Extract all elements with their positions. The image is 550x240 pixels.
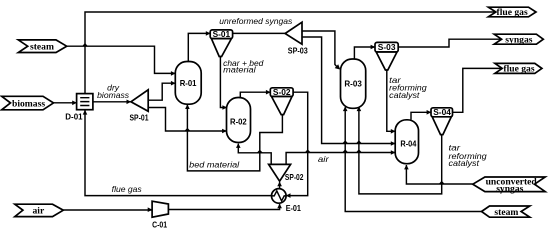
wire R-02 top to S-02 inlet — [240, 92, 270, 97]
wire flue gas from E-01 west and up through D-01 — [85, 110, 272, 195]
wire R-04 top to S-04 inlet — [411, 112, 431, 120]
arrowhead steam into R-03 bottom — [343, 106, 348, 111]
stream banner unconverted syngas (right, points left) — [473, 177, 545, 195]
wire SP-01 lower output to R-02 lower inlet — [148, 108, 226, 132]
splitter SP-03 — [285, 22, 308, 55]
svg-text:D-01: D-01 — [65, 112, 83, 122]
svg-text:catalyst: catalyst — [389, 90, 420, 100]
cyclone S-01 — [210, 29, 232, 56]
wire E-01 top to SP-02 apex — [279, 182, 281, 188]
wire steam banner to R-01 upper inlet — [67, 46, 176, 73]
stream banner steam (bottom right input, points left) — [482, 206, 530, 218]
arrowhead SP-03 upper into R-03 top — [335, 64, 341, 69]
arrowhead syngas into R-04 middle — [391, 141, 396, 146]
crossing hop on air header over recycle riser — [356, 149, 362, 152]
arrowhead into S-04 — [427, 110, 432, 115]
junction J1 (dry biomass / bed material / R-01 feed) — [184, 128, 190, 131]
arrowhead air into C-01 — [148, 207, 153, 212]
arrowhead into E-01 bottom — [277, 204, 282, 209]
svg-text:syngas: syngas — [505, 34, 532, 45]
arrowhead SP-01 upper into R-01 — [171, 81, 176, 86]
compressor C-01 — [152, 201, 168, 229]
arrowhead SP-01 lower into R-02 — [222, 129, 227, 134]
arrowhead recycle into R-03 bottom — [357, 106, 362, 111]
svg-text:S-04: S-04 — [433, 107, 451, 117]
arrowhead dry biomass into SP-01 apex — [127, 100, 132, 105]
svg-text:R-03: R-03 — [344, 79, 362, 89]
svg-text:flue gas: flue gas — [503, 64, 534, 75]
svg-text:air: air — [33, 206, 45, 217]
svg-text:C-01: C-01 — [152, 219, 167, 229]
wire node J4 recycle down west and up into R-03 bottom — [359, 107, 442, 194]
arrowhead catalyst into R-04 upper-left — [391, 129, 396, 134]
svg-text:bed material: bed material — [189, 160, 240, 170]
wire D-01 top up and east to flue gas banner (top) — [85, 12, 496, 94]
svg-text:biomass: biomass — [97, 90, 130, 100]
dryer D-01 — [65, 94, 93, 122]
catalyst regenerator R-04 — [395, 120, 418, 164]
arrowhead into D-01 bottom — [83, 110, 88, 115]
svg-text:syngas: syngas — [496, 184, 523, 195]
svg-text:flue gas: flue gas — [497, 7, 528, 18]
cyclone S-03 — [375, 42, 398, 70]
svg-text:steam: steam — [494, 207, 518, 218]
wire SP-03 upper output down into R-03 top — [302, 31, 337, 66]
svg-text:flue gas: flue gas — [112, 184, 143, 194]
wire S-02 gas outlet down to E-01 right side — [287, 92, 308, 195]
junction J4 (S-04 solids / R-04 bottom loop / recycle) — [439, 181, 445, 184]
stream banner syngas (right output) — [494, 34, 543, 45]
wire biomass banner to D-01 — [54, 102, 77, 104]
svg-text:R-02: R-02 — [230, 117, 247, 127]
svg-text:S-03: S-03 — [378, 42, 396, 52]
wire D-01 to SP-01 (dry biomass) — [93, 101, 131, 103]
svg-text:biomass: biomass — [12, 98, 45, 109]
wire S-01 gas outlet to SP-03 apex (unreformed syngas) — [233, 32, 286, 34]
arrowhead air into R-04 lower — [391, 150, 396, 155]
wire SP-03 lower output to R-04 upper inlet — [302, 37, 395, 144]
wire S-01 solids stem to R-02 upper-left (char + bed material) — [220, 57, 226, 108]
svg-text:E-01: E-01 — [286, 203, 301, 213]
arrowhead R-03 into S-03 — [371, 45, 376, 50]
stream banner steam (top left input) — [18, 40, 66, 53]
wire R-03 top to S-03 inlet — [354, 47, 375, 59]
wire S-03 solids stem to R-04 top-left inlet (tar reforming catalyst) — [387, 70, 395, 131]
arrowhead into S-01 — [206, 31, 211, 36]
heat exchanger E-01 — [272, 189, 302, 214]
svg-text:S-02: S-02 — [273, 87, 291, 97]
stream banner air (bottom left input) — [15, 204, 64, 216]
wire bed material return: node J1 down, east, up to S-02 funnel stem — [187, 115, 282, 171]
svg-text:material: material — [223, 65, 257, 75]
wire node J2 west and down into SP-02 top — [286, 153, 308, 165]
svg-text:SP-03: SP-03 — [288, 46, 308, 56]
arrowhead char into R-02 upper-left — [222, 105, 227, 110]
cyclone S-02 — [270, 87, 293, 115]
crossing hop on R-02 bottom feed over bed material riser — [257, 150, 263, 153]
arrowhead E-01 top into SP-02 apex — [277, 182, 282, 187]
svg-text:unreformed syngas: unreformed syngas — [219, 16, 293, 26]
arrowhead into R-04 bottom — [404, 165, 409, 170]
wire air banner to C-01 — [63, 209, 152, 211]
svg-text:S-01: S-01 — [213, 29, 231, 39]
combustor R-02 — [227, 98, 251, 143]
svg-text:steam: steam — [30, 42, 54, 53]
wire SP-02 west output down-up path to R-02 bottom — [238, 144, 271, 165]
wire C-01 outlet to E-01 bottom — [168, 204, 279, 209]
stream banner biomass (left input) — [2, 96, 54, 110]
junction J2 (S-02 gas / air header / SP-02 feed / E-01 feed) — [305, 149, 311, 152]
svg-text:air: air — [318, 154, 330, 164]
wire S-04 solids stem down to node J4 — [441, 135, 443, 184]
tar reformer R-03 — [341, 59, 366, 108]
gasifier R-01 — [175, 62, 201, 105]
arrowhead into E-01 right side — [286, 193, 291, 198]
crossing hop on syngas line over steam riser — [342, 140, 348, 143]
wire SP-01 upper output to R-01 — [148, 83, 175, 100]
stream banner flue gas (right middle output) — [495, 63, 542, 74]
svg-text:R-01: R-01 — [180, 78, 197, 88]
wire R-04 bottom loop to unconverted syngas banner — [406, 165, 472, 184]
arrowhead steam into R-01 — [171, 71, 176, 76]
wire S-04 gas outlet up to flue gas banner — [453, 68, 503, 112]
stream banner flue gas (top right output) — [488, 7, 536, 18]
crossing hop on steam line over D-01 riser — [82, 43, 88, 46]
wire steam banner (bottom right) west and up into R-03 bottom — [345, 107, 481, 211]
crossing hop on syngas line over recycle riser — [356, 140, 362, 143]
cyclone S-04 — [431, 107, 453, 134]
svg-text:SP-01: SP-01 — [130, 113, 149, 123]
splitter SP-01 — [130, 90, 149, 123]
arrowhead biomass into D-01 — [72, 101, 77, 106]
junction J3 (steam riser joins air header) — [342, 149, 348, 152]
splitter SP-02 — [269, 164, 304, 182]
arrowhead into R-02 bottom — [236, 143, 241, 148]
arrowhead into S-02 — [266, 90, 271, 95]
wire air header from node J2 east to R-04 middle inlet — [308, 152, 396, 154]
wire riser from node J1 to R-01 bottom — [186, 105, 188, 131]
wire R-01 top to S-01 inlet — [188, 33, 210, 61]
arrowhead into R-01 bottom — [185, 104, 190, 109]
wire S-03 gas outlet to syngas banner — [398, 39, 501, 47]
svg-text:SP-02: SP-02 — [285, 172, 304, 182]
svg-text:R-04: R-04 — [400, 138, 416, 148]
svg-text:catalyst: catalyst — [449, 158, 480, 168]
